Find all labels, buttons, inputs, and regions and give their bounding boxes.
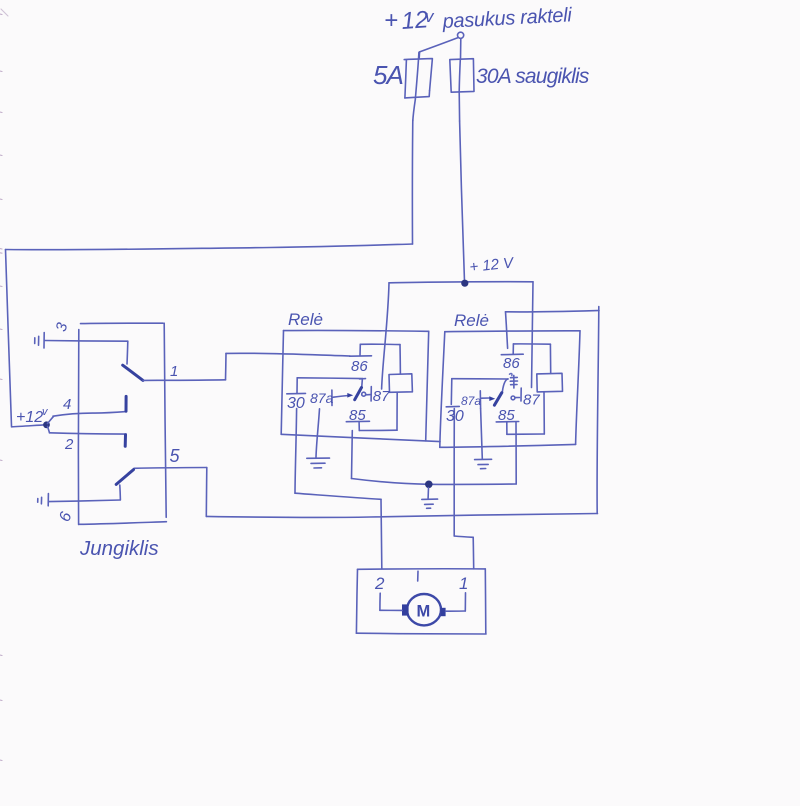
svg-text:86: 86 bbox=[351, 358, 368, 375]
svg-text:85: 85 bbox=[498, 407, 515, 424]
svg-text:Relė: Relė bbox=[454, 311, 489, 330]
svg-text:1: 1 bbox=[459, 574, 468, 593]
svg-text:30A saugiklis: 30A saugiklis bbox=[476, 65, 590, 88]
svg-text:87: 87 bbox=[373, 388, 390, 405]
svg-text:Relė: Relė bbox=[288, 310, 323, 329]
svg-text:1: 1 bbox=[170, 363, 178, 380]
svg-text:v: v bbox=[425, 7, 435, 26]
svg-text:87a: 87a bbox=[461, 394, 481, 408]
svg-text:2: 2 bbox=[64, 436, 74, 453]
svg-text:+12: +12 bbox=[16, 409, 43, 426]
svg-text:pasukus rakteli: pasukus rakteli bbox=[441, 4, 573, 33]
svg-text:+ 12 V: + 12 V bbox=[469, 254, 516, 276]
svg-text:v: v bbox=[42, 406, 49, 418]
svg-text:87a: 87a bbox=[310, 390, 334, 406]
svg-text:86: 86 bbox=[503, 355, 520, 372]
svg-text:Jungiklis: Jungiklis bbox=[79, 537, 159, 560]
svg-text:2: 2 bbox=[374, 574, 385, 593]
svg-text:4: 4 bbox=[63, 396, 71, 413]
svg-text:M: M bbox=[417, 603, 431, 621]
svg-text:30: 30 bbox=[287, 395, 305, 412]
svg-text:30: 30 bbox=[446, 408, 464, 425]
svg-text:85: 85 bbox=[349, 407, 366, 424]
svg-text:5A: 5A bbox=[373, 60, 403, 90]
svg-text:+: + bbox=[384, 7, 398, 34]
svg-text:5: 5 bbox=[170, 446, 181, 466]
svg-text:87: 87 bbox=[523, 392, 540, 409]
svg-text:3: 3 bbox=[53, 320, 72, 333]
svg-text:6: 6 bbox=[56, 510, 75, 524]
